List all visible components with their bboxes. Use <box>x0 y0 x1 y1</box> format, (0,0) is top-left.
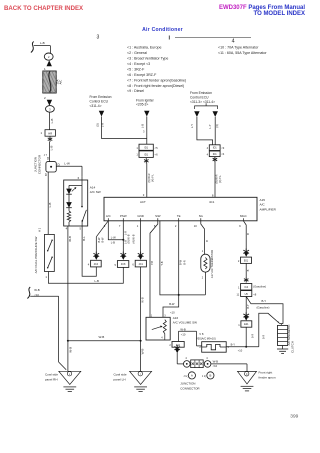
svg-text:CONNECTOR: CONNECTOR <box>37 154 41 174</box>
svg-text:(Gasoline): (Gasoline) <box>253 285 266 289</box>
svg-text:A/C VOLUME SW: A/C VOLUME SW <box>173 321 197 325</box>
svg-text:W-B: W-B <box>140 297 144 303</box>
svg-text:B-W: B-W <box>169 302 175 306</box>
svg-text:Front right: Front right <box>259 371 273 375</box>
svg-text:W-B: W-B <box>68 347 72 353</box>
svg-text:TE: TE <box>177 214 181 218</box>
svg-text:2: 2 <box>169 344 171 347</box>
svg-text:<5: <5 <box>155 146 159 150</box>
svg-text:B-R: B-R <box>182 260 186 265</box>
svg-text:A15: A15 <box>260 198 266 202</box>
svg-text:B-W: B-W <box>97 237 101 243</box>
svg-text:(4) Y-L: (4) Y-L <box>218 175 222 183</box>
svg-text:A14: A14 <box>90 185 96 189</box>
svg-text:<205-3>: <205-3> <box>136 103 148 107</box>
svg-text:5: 5 <box>115 263 117 267</box>
svg-text:<6 : Except 3RZ-F: <6 : Except 3RZ-F <box>127 73 157 77</box>
svg-text:V5S(A/C M9+10): V5S(A/C M9+10) <box>196 337 216 341</box>
svg-text:9: 9 <box>239 224 241 228</box>
svg-text:L-R: L-R <box>123 231 127 235</box>
svg-text:<4: <4 <box>221 152 225 156</box>
svg-text:L-B: L-B <box>48 203 52 208</box>
svg-text:4C1: 4C1 <box>139 263 144 266</box>
svg-text:ID1: ID1 <box>144 153 149 156</box>
svg-text:(9) W-R: (9) W-R <box>215 174 219 183</box>
svg-text:4C4: 4C4 <box>94 263 99 266</box>
svg-text:L-W: L-W <box>111 235 116 239</box>
svg-text:4: 4 <box>207 152 209 156</box>
svg-text:A/C SW: A/C SW <box>90 190 101 194</box>
svg-text:<311-3> <311-4>: <311-3> <311-4> <box>190 100 215 104</box>
svg-text:B: B <box>246 233 250 235</box>
svg-text:1: 1 <box>45 275 47 279</box>
svg-text:L-R: L-R <box>100 123 104 127</box>
svg-text:U5: U5 <box>245 293 249 296</box>
svg-text:Cowl side: Cowl side <box>45 373 58 377</box>
svg-text:11: 11 <box>236 292 239 296</box>
svg-text:4: 4 <box>232 39 235 45</box>
svg-text:W-B: W-B <box>180 327 186 331</box>
svg-text:(4): (4) <box>215 124 219 127</box>
svg-text:<6: <6 <box>155 152 159 156</box>
svg-text:L-B: L-B <box>111 241 115 245</box>
svg-text:A: A <box>191 374 193 378</box>
svg-text:<8: <8 <box>253 293 257 297</box>
svg-text:W-B: W-B <box>99 335 105 339</box>
svg-text:J 1(: J 1( <box>183 375 187 378</box>
svg-text:E21: E21 <box>244 323 249 326</box>
svg-text:4C1: 4C1 <box>209 200 215 204</box>
svg-text:B: B <box>205 240 209 242</box>
svg-text:2: 2 <box>238 259 240 263</box>
svg-text:<1 : Australia, Europe: <1 : Australia, Europe <box>127 46 161 50</box>
svg-text:B-Y: B-Y <box>246 304 250 309</box>
svg-text:(9) W-B: (9) W-B <box>126 234 130 243</box>
svg-text:B: B <box>209 374 211 378</box>
svg-text:6: 6 <box>132 263 134 267</box>
svg-text:1: 1 <box>202 250 204 253</box>
svg-text:B-Y: B-Y <box>262 299 267 303</box>
svg-text:<7 : Front left fender apron(G: <7 : Front left fender apron(Gasoline) <box>127 78 186 82</box>
svg-text:ACT: ACT <box>140 200 146 204</box>
svg-text:ID1: ID1 <box>213 153 218 156</box>
svg-text:<8 : Front right fender apron(: <8 : Front right fender apron(Diesel) <box>127 84 184 88</box>
svg-text:A16: A16 <box>173 316 179 320</box>
svg-text:Y-B: Y-B <box>160 261 164 265</box>
svg-text:A/C: A/C <box>260 203 266 207</box>
svg-text:<10 : 70A Type Alternator: <10 : 70A Type Alternator <box>218 46 259 50</box>
svg-text:3: 3 <box>143 193 145 197</box>
svg-text:SG: SG <box>199 214 204 218</box>
svg-text:1: 1 <box>136 146 138 150</box>
svg-text:(4) W-B: (4) W-B <box>132 234 136 243</box>
svg-text:L-Y: L-Y <box>190 124 194 128</box>
svg-text:2: 2 <box>175 224 177 228</box>
svg-text:W-B: W-B <box>141 349 145 355</box>
svg-text:Y-B: Y-B <box>150 261 154 265</box>
svg-text:1: 1 <box>136 153 138 157</box>
svg-text:(9) W-R: (9) W-R <box>147 173 151 182</box>
svg-text:4C8: 4C8 <box>121 263 126 266</box>
svg-text:<5 : 3RZ-F: <5 : 3RZ-F <box>127 67 145 71</box>
svg-text:CONNECTOR: CONNECTOR <box>180 386 200 390</box>
svg-text:1: 1 <box>238 286 240 290</box>
svg-text:2: 2 <box>48 55 50 59</box>
svg-text:L-B: L-B <box>50 119 54 124</box>
svg-text:W-B: W-B <box>34 288 40 292</box>
svg-text:4: 4 <box>185 357 187 360</box>
svg-text:7: 7 <box>119 224 121 228</box>
svg-text:A/C: A/C <box>106 214 111 218</box>
svg-text:<3 : Broad Ventilator Type: <3 : Broad Ventilator Type <box>127 57 168 61</box>
svg-text:L-Y: L-Y <box>208 124 212 128</box>
svg-text:A/C DUAL PRESSURE SW: A/C DUAL PRESSURE SW <box>34 236 38 273</box>
svg-text:CLUTCH: CLUTCH <box>291 341 295 353</box>
svg-text:AMPLIFIER: AMPLIFIER <box>260 207 277 211</box>
svg-text:<10: <10 <box>170 310 175 314</box>
svg-text:B-Y: B-Y <box>231 342 236 346</box>
svg-text:GND: GND <box>137 214 143 218</box>
svg-text:ID1: ID1 <box>144 147 149 150</box>
svg-text:A 1: A 1 <box>37 227 41 231</box>
svg-text:4: 4 <box>161 336 163 339</box>
svg-text:L-W: L-W <box>64 161 70 165</box>
svg-text:L-B: L-B <box>40 41 45 45</box>
svg-text:panel LH: panel LH <box>114 378 126 382</box>
svg-text:3: 3 <box>97 35 100 41</box>
svg-text:From Emission: From Emission <box>190 91 212 95</box>
svg-text:B-W: B-W <box>101 237 105 243</box>
svg-text:<4 : Except <3: <4 : Except <3 <box>127 62 150 66</box>
svg-text:<11 : 60A, 55A Type Alternator: <11 : 60A, 55A Type Alternator <box>218 51 267 55</box>
svg-text:W-B: W-B <box>68 236 72 242</box>
svg-text:E01: E01 <box>244 259 249 262</box>
svg-text:399: 399 <box>290 413 298 419</box>
svg-text:3: 3 <box>143 130 145 134</box>
svg-text:J 1(: J 1( <box>202 375 206 378</box>
svg-text:W-B: W-B <box>213 360 219 364</box>
svg-text:From Emission: From Emission <box>90 95 112 99</box>
svg-text:1: 1 <box>44 67 46 71</box>
svg-text:<9 : Diesel: <9 : Diesel <box>127 89 144 93</box>
svg-text:2: 2 <box>44 96 46 100</box>
svg-text:fender apron: fender apron <box>259 376 276 380</box>
svg-text:A/C: A/C <box>58 80 62 85</box>
svg-text:(Gasoline): (Gasoline) <box>257 305 270 309</box>
svg-text:panel RH: panel RH <box>45 378 58 382</box>
svg-text:4: 4 <box>66 227 68 231</box>
svg-text:I: I <box>169 36 171 42</box>
svg-text:5: 5 <box>80 227 82 231</box>
svg-text:Control ECU: Control ECU <box>90 99 109 103</box>
svg-text:2: 2 <box>202 276 204 279</box>
svg-text:10: 10 <box>194 224 197 228</box>
svg-text:L-B: L-B <box>141 124 145 128</box>
svg-text:V 8: V 8 <box>199 332 204 336</box>
svg-text:Air Conditioner: Air Conditioner <box>142 27 183 33</box>
svg-text:MGC: MGC <box>240 214 247 218</box>
svg-text:B-R: B-R <box>252 334 255 339</box>
svg-text:S/W: S/W <box>155 214 161 218</box>
svg-text:4: 4 <box>207 146 209 150</box>
svg-text:From Igniter: From Igniter <box>136 98 155 102</box>
svg-text:B-W: B-W <box>179 259 183 265</box>
svg-text:JUNCTION: JUNCTION <box>180 381 195 385</box>
svg-text:PSW: PSW <box>120 214 127 218</box>
svg-text:<10: <10 <box>181 333 186 337</box>
svg-text:4: 4 <box>88 263 90 267</box>
svg-text:B: B <box>246 269 250 271</box>
svg-text:<311-4>: <311-4> <box>90 104 102 108</box>
svg-text:<3: <3 <box>221 146 225 150</box>
svg-text:A17 A/C THERMISTOR: A17 A/C THERMISTOR <box>210 250 214 278</box>
svg-text:IC4: IC4 <box>244 286 249 289</box>
svg-text:HR: HR <box>48 131 52 135</box>
svg-text:B-R: B-R <box>263 335 266 340</box>
svg-text:L-B: L-B <box>50 146 54 151</box>
svg-text:L-B: L-B <box>95 279 99 283</box>
svg-text:Cowl side: Cowl side <box>114 373 127 377</box>
svg-text:B-L: B-L <box>82 236 86 241</box>
svg-text:2: 2 <box>199 346 201 349</box>
svg-text:(4) Y-L: (4) Y-L <box>151 174 155 182</box>
svg-text:<10: <10 <box>213 364 218 368</box>
svg-text:D: D <box>45 173 48 177</box>
svg-text:Control ECU: Control ECU <box>190 95 209 99</box>
svg-text:1: 1 <box>238 323 240 327</box>
svg-text:4: 4 <box>206 357 208 360</box>
svg-text:<2 : General: <2 : General <box>127 51 147 55</box>
svg-text:1: 1 <box>40 131 42 135</box>
svg-text:3: 3 <box>49 107 51 111</box>
svg-text:<10: <10 <box>238 348 243 352</box>
svg-text:(5): (5) <box>95 123 99 126</box>
svg-text:1: 1 <box>137 224 139 228</box>
svg-text:ID1: ID1 <box>213 147 218 150</box>
